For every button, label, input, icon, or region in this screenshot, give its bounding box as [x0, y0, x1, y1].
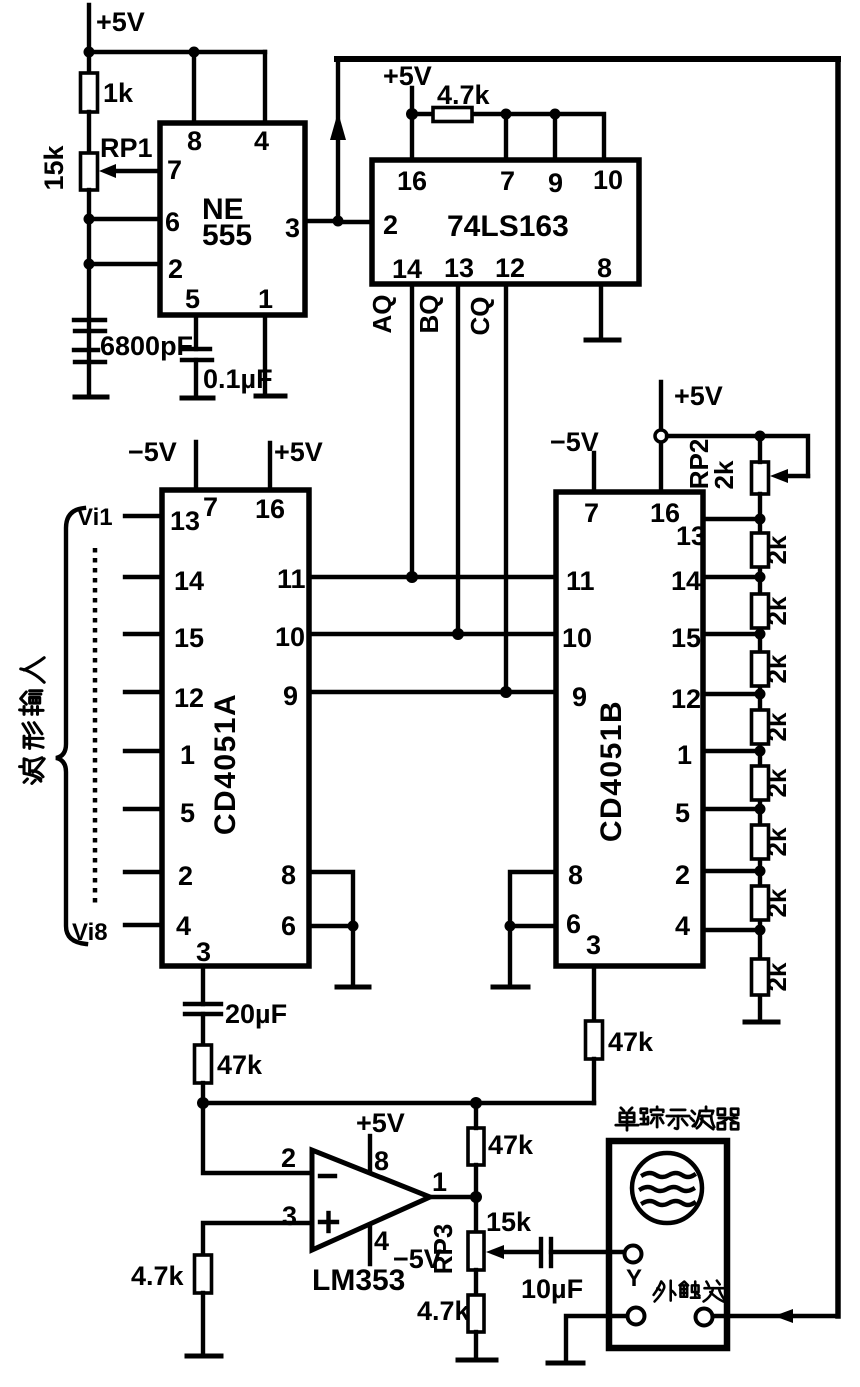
- wire trigger to right rail w arrow: [714, 1314, 838, 1318]
- svg-text:2k: 2k: [762, 827, 792, 856]
- wire RP2 wiper w arrow: [780, 474, 808, 478]
- svg-text:13: 13: [170, 506, 200, 536]
- svg-text:14: 14: [392, 254, 422, 284]
- svg-text:14: 14: [174, 566, 204, 596]
- svg-text:1: 1: [432, 1167, 447, 1197]
- svg-text:12: 12: [495, 253, 525, 283]
- wire to U1 pin 2: [89, 262, 160, 266]
- node junction chain 1: [755, 746, 766, 757]
- ground (ladder): [745, 1020, 778, 1025]
- wire RP1 wiper to U1 pin 7 with arrow: [108, 169, 160, 173]
- svg-text:47k: 47k: [488, 1130, 534, 1160]
- wire to U1 pin 4: [263, 52, 267, 123]
- wire to U2 pin9: [553, 114, 557, 160]
- wire 47k to summing node: [592, 1059, 596, 1103]
- node junction chain 4: [755, 925, 766, 936]
- wire cap to 47k: [201, 1014, 205, 1045]
- svg-text:16: 16: [397, 166, 427, 196]
- wire input stub pin1: [125, 749, 162, 753]
- wire op-amp output: [430, 1195, 476, 1199]
- wire U3 pin8 to ground: [309, 872, 353, 985]
- CRT trace wavy lines: [643, 1173, 694, 1177]
- power -5V (op-amp pin 4): [368, 1226, 372, 1264]
- svg-text:6: 6: [566, 909, 581, 939]
- capacitor 10uF: [539, 1239, 543, 1266]
- wire RP3 to 4.7k: [474, 1270, 478, 1295]
- svg-text:2: 2: [675, 860, 690, 890]
- svg-text:2k: 2k: [762, 654, 792, 683]
- node junction pin 2: [84, 259, 95, 270]
- svg-text:+5V: +5V: [383, 61, 432, 91]
- node junction +5V rail: [84, 47, 95, 58]
- connector Y input: [625, 1246, 642, 1263]
- svg-text:9: 9: [572, 682, 587, 712]
- svg-text:4.7k: 4.7k: [437, 80, 491, 110]
- resistor 4.7k (pin3 bias): [195, 1255, 212, 1293]
- resistor 47k (feedback): [468, 1128, 484, 1165]
- resistor 2k (5-2): [752, 825, 769, 859]
- node junction chain 13: [755, 514, 766, 525]
- svg-text:4: 4: [176, 911, 191, 941]
- op-amp U5 LM353: [312, 1150, 430, 1250]
- svg-text:2: 2: [168, 254, 183, 284]
- resistor 1k: [81, 73, 98, 112]
- svg-text:RP3: RP3: [428, 1224, 458, 1275]
- ground (U4 pin6/8): [493, 985, 528, 990]
- svg-text:47k: 47k: [217, 1050, 263, 1080]
- node junction pin8 branch: [189, 47, 200, 58]
- wire U4 pin4 to chain: [703, 928, 760, 932]
- resistor 47k (U3 out): [195, 1045, 212, 1083]
- wire down to pin2 node: [87, 219, 91, 264]
- potentiometer RP1 15k: [81, 153, 98, 190]
- brace waveform inputs: [56, 508, 86, 944]
- node junction output: [470, 1191, 482, 1203]
- svg-text:3: 3: [285, 213, 300, 243]
- svg-text:+5V: +5V: [96, 7, 145, 37]
- wire U3 pin6: [309, 924, 353, 928]
- ground (6800pF): [75, 395, 107, 400]
- wire -5V stub pin7: [592, 453, 596, 492]
- node junction pin6/pin8: [348, 921, 359, 932]
- wire BQ (pin13 down): [456, 284, 460, 634]
- svg-text:4: 4: [374, 1226, 389, 1256]
- wire U3 pin3 down: [201, 966, 205, 1004]
- svg-text:2k: 2k: [762, 768, 792, 797]
- resistor 2k (4-gnd): [752, 959, 769, 995]
- wire input stub pin5: [125, 807, 162, 811]
- wire input stub pin14: [125, 575, 162, 579]
- svg-text:12: 12: [174, 683, 204, 713]
- svg-text:2k: 2k: [762, 712, 792, 741]
- node open circle +5V tap: [655, 430, 667, 442]
- svg-text:11: 11: [277, 564, 306, 594]
- svg-text:1: 1: [677, 740, 692, 770]
- svg-text:CD4051B: CD4051B: [595, 700, 628, 842]
- svg-text:5: 5: [185, 284, 200, 314]
- svg-text:1k: 1k: [103, 78, 134, 108]
- wire input stub pin2: [125, 870, 162, 874]
- svg-text:7: 7: [500, 166, 515, 196]
- node junction CQ/pin9: [500, 686, 512, 698]
- svg-text:BQ: BQ: [414, 295, 444, 334]
- svg-text:5: 5: [180, 798, 195, 828]
- wire AQ (pin14 down): [410, 284, 414, 577]
- minus sign: [320, 1174, 335, 1178]
- svg-text:6: 6: [165, 207, 180, 237]
- dotted line inputs: [93, 548, 98, 908]
- svg-text:Y: Y: [626, 1265, 642, 1292]
- svg-text:4.7k: 4.7k: [131, 1261, 185, 1291]
- plus sign: [320, 1220, 337, 1224]
- wire U4 pin3 down: [592, 966, 596, 1021]
- wire input stub pin15: [125, 632, 162, 636]
- svg-text:13: 13: [444, 253, 474, 283]
- svg-text:7: 7: [167, 155, 182, 185]
- wire 1k to RP1: [87, 112, 91, 153]
- svg-text:7: 7: [584, 498, 599, 528]
- node junction chain 12: [755, 689, 766, 700]
- svg-text:4: 4: [675, 911, 690, 941]
- resistor 2k (1-5): [752, 766, 769, 800]
- ground (pin1): [256, 394, 285, 399]
- wire RP2 vertical: [758, 436, 762, 462]
- counter U2 74LS163 box: [372, 160, 639, 284]
- svg-text:15: 15: [174, 623, 204, 653]
- wire node to inverting input: [203, 1103, 312, 1173]
- svg-text:10: 10: [275, 622, 305, 652]
- wire cap to ground: [194, 360, 198, 396]
- potentiometer RP3 15k: [468, 1232, 484, 1270]
- capacitor 6800pF: [74, 318, 105, 322]
- svg-text:8: 8: [568, 860, 583, 890]
- wire U4 pin1 to chain: [703, 749, 760, 753]
- wire U2 pin8 to ground: [599, 284, 603, 338]
- wire 10uF to scope Y: [551, 1250, 625, 1254]
- svg-text:5: 5: [675, 798, 690, 828]
- svg-text:12: 12: [671, 684, 701, 714]
- svg-text:4: 4: [254, 126, 269, 156]
- wire +5V to RP2 top: [667, 436, 808, 476]
- wire RP1 down: [87, 190, 91, 219]
- wire output down to RP3: [474, 1197, 478, 1232]
- wire scope ground: [566, 1316, 627, 1361]
- connector scope ground: [628, 1308, 645, 1325]
- svg-text:2k: 2k: [762, 888, 792, 917]
- wire 4.7k net: [412, 114, 604, 160]
- node junction BQ/pin10: [452, 628, 464, 640]
- resistor 2k (13-14): [752, 533, 769, 567]
- wire U4 pin2 to chain: [703, 869, 760, 873]
- CRT circle: [632, 1153, 702, 1223]
- svg-text:10: 10: [562, 623, 592, 653]
- wire clock vertical with up arrow: [336, 59, 340, 221]
- svg-text:20µF: 20µF: [225, 999, 287, 1029]
- svg-text:8: 8: [187, 126, 202, 156]
- resistor 2k (14-15): [752, 594, 769, 628]
- wire U3 pin9 to U4 pin9: [309, 690, 556, 694]
- svg-text:8: 8: [281, 860, 296, 890]
- svg-text:9: 9: [548, 168, 563, 198]
- wire down to capacitor: [87, 264, 91, 396]
- node junction AQ/pin11: [406, 571, 418, 583]
- mux U4 CD4051B box: [556, 492, 703, 966]
- resistor 47k (U4 out): [586, 1021, 603, 1059]
- node junction RP2 top: [755, 431, 766, 442]
- wire U4 pin14 to chain: [703, 575, 760, 579]
- svg-text:2: 2: [281, 1143, 296, 1173]
- node junction pin 6: [84, 214, 95, 225]
- wire ladder spine: [758, 494, 762, 1021]
- svg-text:2k: 2k: [762, 535, 792, 564]
- wire U4 pin5 to chain: [703, 807, 760, 811]
- wire U4 pin8 to ground: [510, 872, 556, 985]
- wire +5V rail to pins 8,4: [89, 50, 265, 54]
- ground (0.1uF): [182, 396, 213, 401]
- connector ext trigger: [696, 1309, 713, 1326]
- node junction chain 2: [755, 866, 766, 877]
- op 555 U1 box: [160, 123, 305, 315]
- svg-text:+5V: +5V: [356, 1108, 405, 1138]
- svg-text:−5V: −5V: [550, 427, 599, 457]
- svg-text:15k: 15k: [39, 144, 69, 190]
- wire U2 pin2 to clock node: [338, 220, 372, 224]
- svg-text:7: 7: [203, 492, 218, 522]
- svg-text:555: 555: [202, 219, 252, 252]
- wire 4.7k to ground: [474, 1332, 478, 1358]
- wire to U2 pin7: [504, 114, 508, 160]
- svg-text:+5V: +5V: [274, 437, 323, 467]
- wire U3 pin11 to U4 pin11: [309, 575, 556, 579]
- wire U1 pin3 output: [305, 219, 338, 223]
- svg-text:2k: 2k: [762, 962, 792, 991]
- wire input stub pin12: [125, 690, 162, 694]
- wire +5V stub down: [87, 5, 91, 73]
- svg-text:4.7k: 4.7k: [417, 1296, 471, 1326]
- label CJK single-trace-oscilloscope: [616, 1107, 738, 1130]
- wire U1 pin5 down: [194, 315, 198, 349]
- svg-text:6: 6: [281, 911, 296, 941]
- wire RP3 wiper w arrow: [494, 1250, 540, 1254]
- node junction pin7: [501, 109, 512, 120]
- wire summing node horizontal: [203, 1101, 594, 1105]
- svg-text:3: 3: [196, 937, 211, 967]
- svg-text:6800pF: 6800pF: [100, 331, 193, 361]
- oscilloscope box: [609, 1141, 727, 1348]
- svg-text:1: 1: [180, 740, 195, 770]
- resistor 2k (12-1): [752, 710, 769, 744]
- wire U3 pin10 to U4 pin10: [309, 632, 556, 636]
- node junction summing right: [470, 1097, 482, 1109]
- potentiometer RP2 2k: [752, 462, 769, 494]
- node junction pin3/clock: [333, 216, 344, 227]
- resistor 2k (15-12): [752, 652, 769, 686]
- svg-text:16: 16: [255, 494, 285, 524]
- wire U4 pin13 to chain: [703, 517, 760, 521]
- wire U4 pin15 to chain: [703, 632, 760, 636]
- svg-text:13: 13: [676, 521, 706, 551]
- wire +5V stub pin16: [659, 382, 663, 492]
- node junction pin9: [550, 109, 561, 120]
- wire to U1 pin 8: [192, 52, 196, 123]
- svg-text:2k: 2k: [709, 460, 739, 489]
- capacitor 20uF: [185, 1002, 221, 1006]
- wire -5V stub pin7: [194, 442, 198, 490]
- capacitor 0.1uF: [184, 347, 210, 351]
- wire 4.7k to ground: [201, 1293, 205, 1354]
- wire U4 pin6: [510, 924, 556, 928]
- node junction summing left: [197, 1097, 209, 1109]
- svg-text:AQ: AQ: [367, 295, 397, 334]
- wire CQ (pin12 down): [504, 284, 508, 692]
- label CJK waveform-input: [20, 658, 45, 784]
- ground (U2 pin8): [586, 338, 619, 343]
- svg-text:8: 8: [374, 1146, 389, 1176]
- node junction chain 15: [755, 629, 766, 640]
- svg-text:−5V: −5V: [128, 437, 177, 467]
- svg-text:11: 11: [566, 566, 595, 596]
- node junction U4 pin6/8: [505, 921, 516, 932]
- svg-text:10µF: 10µF: [521, 1274, 583, 1304]
- wire right vertical to trigger: [835, 59, 841, 1316]
- ground (scope): [548, 1361, 583, 1366]
- svg-text:14: 14: [671, 566, 701, 596]
- svg-text:1: 1: [258, 284, 273, 314]
- svg-text:CQ: CQ: [465, 297, 495, 336]
- label CJK ext-trigger: [654, 1281, 725, 1302]
- resistor 4.7k (pullup): [433, 108, 472, 122]
- node junction chain 14: [755, 572, 766, 583]
- wire input stub pin4: [125, 923, 162, 927]
- svg-text:10: 10: [593, 165, 623, 195]
- svg-text:2: 2: [178, 861, 193, 891]
- wire top feedback rail: [337, 56, 838, 62]
- wire non-inverting input: [203, 1223, 312, 1255]
- wire input stub pin13: [125, 514, 162, 518]
- svg-text:15k: 15k: [486, 1207, 532, 1237]
- resistor 4.7k (RP3 bottom): [468, 1295, 484, 1332]
- svg-text:3: 3: [586, 930, 601, 960]
- wire 47k to node: [201, 1083, 205, 1103]
- svg-text:0.1µF: 0.1µF: [203, 364, 273, 394]
- node junction chain 5: [755, 804, 766, 815]
- node junction +5V/4.7k: [406, 108, 418, 120]
- svg-text:LM353: LM353: [312, 1264, 405, 1297]
- wire U4 pin12 to chain: [703, 692, 760, 696]
- ground (4.7k): [187, 1354, 221, 1359]
- wire 47k feedback: [474, 1103, 478, 1128]
- wire +5V stub: [410, 88, 414, 160]
- wire U1 pin1 down: [263, 315, 267, 395]
- svg-text:2: 2: [383, 210, 398, 240]
- wire +5V stub pin16: [268, 443, 272, 490]
- svg-text:47k: 47k: [608, 1027, 654, 1057]
- ground (RP3 4.7k): [458, 1358, 496, 1363]
- svg-text:3: 3: [282, 1201, 297, 1231]
- svg-text:15: 15: [671, 623, 701, 653]
- mux U3 CD4051A box: [162, 490, 309, 966]
- svg-text:RP1: RP1: [100, 133, 153, 163]
- svg-text:+5V: +5V: [674, 381, 723, 411]
- resistor 2k (2-4): [752, 886, 769, 920]
- ground (U3 pin6/8): [337, 985, 369, 990]
- svg-text:CD4051A: CD4051A: [209, 693, 242, 835]
- wire to U1 pin 6: [89, 217, 160, 221]
- svg-text:9: 9: [283, 681, 298, 711]
- svg-text:74LS163: 74LS163: [447, 210, 569, 243]
- svg-text:2k: 2k: [762, 596, 792, 625]
- svg-text:8: 8: [597, 253, 612, 283]
